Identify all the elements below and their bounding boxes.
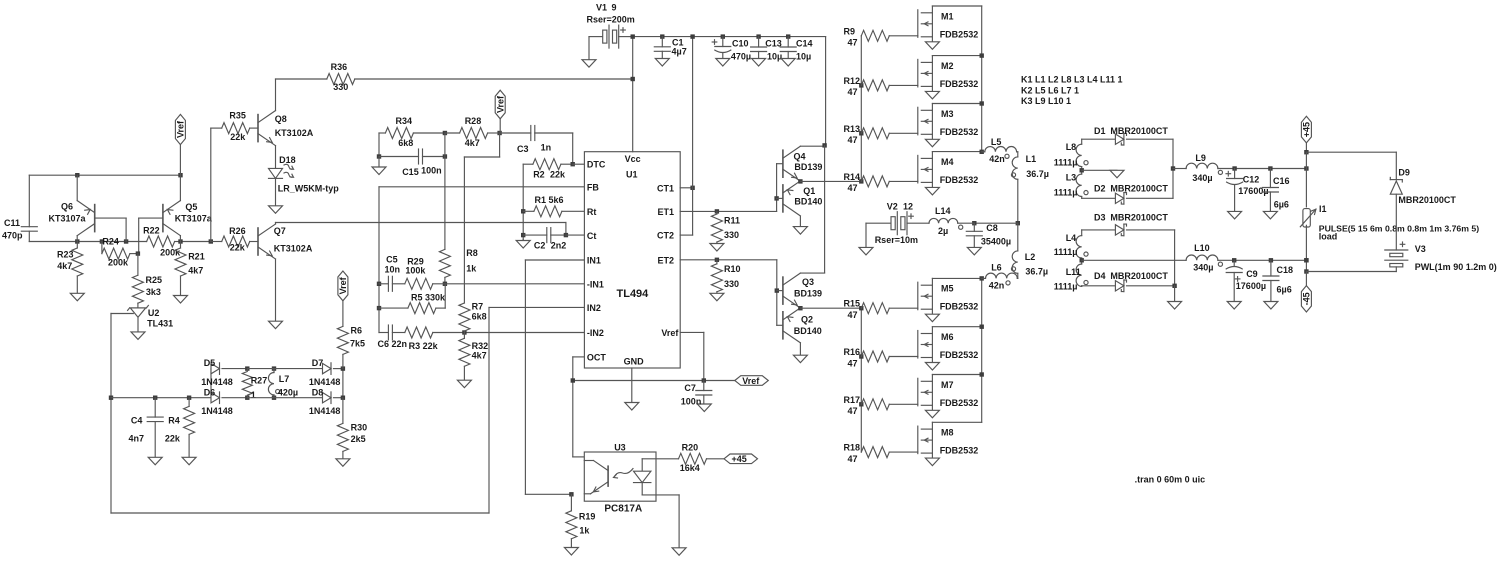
resistor R35	[211, 111, 258, 142]
net flag +45 R20	[724, 454, 758, 464]
resistor R32	[457, 333, 488, 388]
svg-text:22k: 22k	[165, 434, 181, 444]
svg-text:CT2: CT2	[657, 231, 674, 241]
svg-text:1111µ: 1111µ	[1054, 282, 1078, 292]
svg-text:C3: C3	[517, 144, 529, 154]
svg-text:R34: R34	[396, 116, 413, 126]
svg-text:47: 47	[848, 135, 858, 145]
svg-text:D3: D3	[1094, 213, 1106, 223]
wire drain M3	[932, 103, 981, 105]
wire gate bus bottom	[859, 306, 863, 452]
resistor R29	[392, 256, 584, 289]
resistor R28	[445, 116, 500, 148]
resistor R5	[379, 284, 446, 314]
junction dot R11	[715, 209, 719, 213]
svg-text:35400µ: 35400µ	[981, 236, 1011, 246]
svg-text:R7: R7	[472, 302, 484, 312]
wire to R8	[444, 133, 446, 249]
svg-text:Q1: Q1	[803, 186, 815, 196]
transistor Q4	[777, 146, 825, 181]
svg-text:TL431: TL431	[147, 318, 173, 328]
svg-text:R24: R24	[102, 236, 119, 246]
svg-text:340µ: 340µ	[1193, 262, 1213, 272]
svg-text:6µ6: 6µ6	[1277, 285, 1292, 295]
svg-text:MBR20100CT: MBR20100CT	[1398, 195, 1456, 205]
transistor Q6	[49, 175, 127, 241]
svg-text:FDB2532: FDB2532	[940, 175, 979, 185]
svg-text:1N4148: 1N4148	[201, 406, 233, 416]
svg-text:Vref: Vref	[176, 120, 186, 138]
svg-text:Q8: Q8	[275, 114, 287, 124]
inductor L9	[1173, 153, 1306, 183]
svg-text:Rt: Rt	[587, 207, 597, 217]
wire driver node A	[798, 179, 861, 183]
svg-text:LR_W5KM-typ: LR_W5KM-typ	[278, 184, 339, 194]
inductor L1	[1011, 152, 1049, 223]
svg-text:FDB2532: FDB2532	[940, 127, 979, 137]
wire D6 row	[247, 397, 322, 399]
svg-text:1: 1	[251, 390, 256, 400]
resistor R34	[379, 116, 445, 148]
resistor R22	[143, 225, 181, 257]
inductor L10	[1082, 243, 1307, 273]
svg-text:100k: 100k	[405, 266, 426, 276]
svg-text:L11: L11	[1066, 267, 1081, 277]
svg-text:TL494: TL494	[617, 288, 650, 300]
svg-text:L10: L10	[1194, 243, 1210, 253]
voltage source V3	[1306, 194, 1496, 272]
wire Q7 collector to Ct	[276, 223, 566, 236]
wire drain M7	[932, 374, 981, 376]
wire top rail	[633, 37, 826, 146]
svg-text:R12: R12	[844, 76, 861, 86]
wire drain M2	[932, 55, 981, 57]
svg-text:FB: FB	[587, 183, 599, 193]
ground V1	[582, 37, 596, 68]
svg-text:L2: L2	[1025, 252, 1036, 262]
svg-text:GND: GND	[624, 357, 645, 367]
capacitor C1	[654, 37, 686, 66]
diode D6	[201, 387, 247, 416]
junction dots DTC row	[443, 131, 502, 135]
junction dots top rail	[631, 34, 791, 38]
svg-text:.tran 0 60m 0 uic: .tran 0 60m 0 uic	[1135, 475, 1206, 485]
wire bus R35 R26	[210, 128, 212, 241]
mosfet M3 FDB2532	[918, 104, 978, 147]
capacitor C6	[378, 325, 408, 349]
svg-text:R26: R26	[229, 226, 246, 236]
resistor R4	[165, 398, 196, 465]
svg-text:6k8: 6k8	[398, 138, 413, 148]
svg-text:C18: C18	[1277, 265, 1294, 275]
junction dot R10	[715, 258, 719, 262]
net flag +45	[1301, 116, 1311, 152]
voltage source V1	[587, 3, 635, 49]
svg-text:47: 47	[848, 406, 858, 416]
capacitor C16	[1262, 169, 1289, 219]
svg-text:4k7: 4k7	[57, 261, 72, 271]
resistor R12	[844, 76, 918, 97]
svg-text:IN1: IN1	[587, 256, 601, 266]
svg-text:PULSE(5 15 6m 0.8m 0.8m 1m 3.7: PULSE(5 15 6m 0.8m 0.8m 1m 3.76m 5)	[1319, 223, 1479, 233]
junction dots +45 rail	[1232, 166, 1308, 170]
junction dots main wire	[75, 239, 213, 243]
svg-text:C5: C5	[386, 255, 398, 265]
svg-text:47: 47	[848, 87, 858, 97]
wire Q4 Q1 bases	[774, 164, 778, 212]
svg-text:C12: C12	[1243, 175, 1260, 185]
svg-text:MBR20100CT: MBR20100CT	[1110, 184, 1168, 194]
svg-text:47: 47	[848, 38, 858, 48]
svg-text:DTC: DTC	[587, 160, 606, 170]
svg-text:V3: V3	[1415, 244, 1426, 254]
svg-text:R10: R10	[724, 264, 741, 274]
resistor R10	[710, 260, 741, 301]
junction dots -45 rail	[1232, 258, 1309, 262]
wire FB	[379, 187, 584, 333]
resistor R6	[337, 301, 365, 369]
svg-text:1111µ: 1111µ	[1054, 158, 1078, 168]
winding L11	[1054, 258, 1088, 292]
resistor R18	[844, 443, 918, 464]
svg-text:C7: C7	[684, 383, 696, 393]
svg-text:1k: 1k	[466, 264, 477, 274]
svg-text:4k7: 4k7	[472, 351, 487, 361]
svg-text:420µ: 420µ	[278, 388, 298, 398]
svg-text:22k: 22k	[230, 243, 246, 253]
resistor R11	[710, 211, 740, 251]
svg-text:R35: R35	[229, 111, 246, 121]
svg-text:U1: U1	[626, 169, 638, 179]
svg-text:MBR20100CT: MBR20100CT	[1110, 271, 1168, 281]
svg-text:KT3102A: KT3102A	[274, 244, 313, 254]
svg-text:9: 9	[612, 3, 617, 13]
svg-text:V2: V2	[887, 202, 898, 212]
ground V2	[859, 223, 873, 255]
svg-text:D5: D5	[204, 358, 216, 368]
svg-text:10µ: 10µ	[767, 51, 782, 61]
svg-text:R19: R19	[579, 511, 596, 521]
wire drain bus top	[980, 6, 984, 154]
transistor Q8	[258, 79, 314, 168]
svg-text:Q2: Q2	[801, 315, 813, 325]
svg-text:R23: R23	[57, 249, 74, 259]
svg-text:D9: D9	[1398, 168, 1410, 178]
svg-text:Q4: Q4	[794, 151, 806, 161]
net flag Vref	[735, 376, 769, 386]
svg-text:R5 330k: R5 330k	[411, 292, 446, 302]
wire rectifier bottom to ground	[1168, 230, 1182, 309]
svg-text:L3: L3	[1066, 172, 1077, 182]
resistor R13	[844, 124, 918, 145]
capacitor C10	[712, 37, 751, 66]
wire to bus	[181, 241, 211, 243]
wire ET1	[680, 210, 776, 212]
svg-text:330: 330	[724, 230, 739, 240]
svg-text:1111µ: 1111µ	[1054, 187, 1078, 197]
svg-text:R15: R15	[844, 299, 861, 309]
svg-text:Q5: Q5	[185, 202, 197, 212]
svg-text:M8: M8	[941, 428, 954, 438]
wire Vref node	[571, 378, 735, 382]
svg-text:C16: C16	[1273, 176, 1290, 186]
current load I1	[1300, 204, 1326, 227]
svg-text:Q7: Q7	[274, 226, 286, 236]
wire DTC stub	[571, 162, 585, 166]
svg-text:C2: C2	[534, 241, 546, 251]
capacitor C13	[751, 37, 783, 66]
resistor R19	[564, 494, 595, 555]
svg-text:FDB2532: FDB2532	[940, 302, 979, 312]
mosfet M4 FDB2532	[918, 152, 978, 195]
diode D4	[1082, 271, 1175, 292]
wire drain M8	[932, 421, 981, 423]
svg-text:L4: L4	[1066, 233, 1077, 243]
svg-text:200k: 200k	[108, 257, 129, 267]
svg-text:3k3: 3k3	[146, 287, 161, 297]
svg-text:M7: M7	[941, 380, 954, 390]
inductor L5	[982, 137, 1018, 164]
svg-text:C8: C8	[986, 223, 998, 233]
transistor Q7	[258, 223, 313, 329]
resistor R26	[211, 226, 258, 253]
svg-text:Vcc: Vcc	[625, 154, 641, 164]
resistor R8	[439, 248, 477, 284]
svg-text:FDB2532: FDB2532	[940, 398, 979, 408]
junction node D-network left	[109, 396, 113, 400]
shunt regulator U2 TL431	[111, 303, 173, 339]
wire gate bus top	[859, 36, 863, 184]
svg-text:M5: M5	[941, 284, 954, 294]
svg-text:1N4148: 1N4148	[309, 377, 341, 387]
svg-text:Vref: Vref	[338, 276, 348, 294]
svg-text:Vref: Vref	[742, 376, 760, 386]
transistor Q1	[777, 181, 823, 234]
svg-text:R1 5k6: R1 5k6	[535, 195, 564, 205]
svg-text:2n2: 2n2	[551, 241, 567, 251]
svg-text:load: load	[1319, 232, 1338, 242]
wire drain M6	[932, 326, 981, 328]
resistor R30	[336, 398, 367, 467]
svg-text:10n: 10n	[385, 264, 401, 274]
resistor R25	[132, 254, 162, 304]
svg-text:M2: M2	[941, 61, 954, 71]
svg-text:10µ: 10µ	[796, 51, 811, 61]
svg-text:M4: M4	[941, 157, 954, 167]
svg-text:L14: L14	[935, 206, 951, 216]
mosfet M5 FDB2532	[918, 278, 978, 321]
svg-text:C10: C10	[732, 39, 749, 49]
svg-text:OCT: OCT	[587, 353, 607, 363]
wire feedback loop bottom	[111, 307, 489, 513]
svg-text:22k: 22k	[230, 132, 246, 142]
svg-text:7k5: 7k5	[350, 338, 365, 348]
net flag Vref tail	[175, 114, 185, 175]
wire D5 row	[247, 368, 322, 370]
svg-text:100n: 100n	[681, 396, 702, 406]
inductor L2	[1011, 223, 1048, 278]
wire Vcc bus right	[822, 143, 826, 273]
svg-text:D7: D7	[312, 358, 324, 368]
optocoupler U3 PC817A box	[584, 443, 656, 515]
junction dots R1 C2	[521, 209, 525, 237]
net flag Vref DTC	[495, 90, 505, 133]
svg-text:R36: R36	[331, 62, 348, 72]
wire ET2	[680, 259, 777, 261]
wire IN1 to opto	[525, 260, 584, 494]
resistor R1	[523, 195, 584, 217]
svg-text:L1: L1	[1026, 154, 1037, 164]
svg-text:BD140: BD140	[794, 326, 822, 336]
svg-text:ET1: ET1	[657, 207, 674, 217]
svg-text:K2 L5 L6 L7 1: K2 L5 L6 L7 1	[1021, 86, 1079, 96]
svg-text:1111µ: 1111µ	[1054, 247, 1078, 257]
svg-text:M1: M1	[941, 11, 954, 21]
wire emitter rail	[29, 174, 180, 176]
svg-text:2µ: 2µ	[938, 226, 948, 236]
svg-text:R3 22k: R3 22k	[409, 341, 439, 351]
svg-text:FDB2532: FDB2532	[940, 350, 979, 360]
svg-text:D18: D18	[279, 155, 296, 165]
mosfet M1 FDB2532	[918, 6, 978, 49]
svg-text:Ct: Ct	[587, 231, 597, 241]
svg-text:C13: C13	[765, 39, 782, 49]
svg-text:PWL(1m 90 1.2m 0): PWL(1m 90 1.2m 0)	[1415, 262, 1497, 272]
svg-text:470p: 470p	[2, 231, 23, 241]
resistor R2	[523, 159, 573, 180]
wire drain bus bottom	[980, 276, 984, 422]
svg-text:-45: -45	[1302, 292, 1312, 305]
inductor L7	[268, 369, 298, 398]
wire OCT to opto collector	[573, 357, 585, 457]
svg-text:C14: C14	[796, 39, 813, 49]
resistor R21	[174, 242, 205, 304]
winding L4	[1054, 230, 1088, 258]
svg-text:C9: C9	[1246, 269, 1258, 279]
text simulation directive	[1135, 475, 1206, 485]
svg-text:36.7µ: 36.7µ	[1026, 169, 1049, 179]
svg-text:1N4148: 1N4148	[309, 406, 341, 416]
svg-text:R30: R30	[351, 423, 368, 433]
svg-text:-IN1: -IN1	[587, 280, 604, 290]
capacitor C3	[500, 126, 573, 155]
svg-text:R28: R28	[465, 116, 482, 126]
capacitor C7	[681, 381, 712, 412]
resistor R27	[242, 369, 267, 400]
capacitor C9	[1226, 260, 1266, 309]
svg-text:4k7: 4k7	[188, 266, 203, 276]
resistor R16	[844, 347, 918, 368]
resistor R14	[844, 172, 918, 193]
ground GND pin	[625, 368, 639, 410]
svg-text:IN2: IN2	[587, 303, 601, 313]
resistor R23	[57, 242, 84, 301]
svg-text:1k: 1k	[579, 525, 590, 535]
net flag -45	[1301, 272, 1311, 313]
resistor R20	[642, 443, 724, 474]
wire Vref pin	[680, 332, 704, 380]
svg-text:Rser=200m: Rser=200m	[587, 15, 635, 25]
junction dots -IN1 R5	[377, 282, 447, 311]
winding L8	[1054, 139, 1088, 167]
transistor Q5	[139, 175, 213, 253]
wire rectifier top	[1171, 139, 1175, 198]
junction dots C4 R4	[153, 396, 191, 400]
junction dots emitter rail	[75, 173, 183, 177]
mosfet M7 FDB2532	[918, 375, 978, 418]
svg-text:K1 L1 L2 L8 L3 L4 L11 1: K1 L1 L2 L8 L3 L4 L11 1	[1021, 75, 1123, 85]
svg-text:C15: C15	[402, 167, 419, 177]
wire driver node B	[798, 306, 861, 310]
junction dot -IN2	[462, 330, 466, 334]
svg-text:FDB2532: FDB2532	[940, 446, 979, 456]
net flag Vref R6	[338, 271, 348, 301]
svg-text:M6: M6	[941, 332, 954, 342]
svg-text:C11: C11	[4, 218, 20, 228]
wire main left	[29, 241, 146, 243]
wire +45 bus upper	[1304, 150, 1308, 207]
svg-text:R6: R6	[351, 325, 363, 335]
wire resonant node	[972, 221, 1020, 225]
resistor R36 and wire to Vcc	[276, 62, 633, 92]
svg-text:1N4148: 1N4148	[201, 377, 233, 387]
svg-text:22k: 22k	[550, 170, 566, 180]
svg-text:FDB2532: FDB2532	[940, 29, 979, 39]
junction dots R27 L7	[245, 366, 276, 400]
transistor Q3	[777, 273, 825, 308]
svg-text:R2: R2	[533, 170, 545, 180]
wire CT1 CT2 to Vcc rail	[680, 37, 695, 236]
svg-text:L7: L7	[279, 374, 290, 384]
svg-text:R13: R13	[844, 124, 861, 134]
node R24 R25	[136, 251, 140, 255]
svg-text:KT3107a: KT3107a	[175, 214, 213, 224]
resistor R3	[392, 327, 464, 351]
text I1 value	[1319, 223, 1479, 241]
IC U1 TL494	[584, 152, 680, 368]
capacitor C4	[129, 398, 164, 465]
svg-text:CT1: CT1	[657, 183, 674, 193]
svg-text:R20: R20	[682, 443, 699, 453]
capacitor C15	[379, 149, 447, 177]
junction dot R19	[569, 492, 573, 496]
svg-text:Vref: Vref	[495, 95, 505, 113]
diode D9	[1390, 168, 1456, 205]
diode D3	[1082, 213, 1175, 236]
wire Q3 Q2 bases	[775, 260, 779, 326]
capacitor C8	[966, 223, 1011, 255]
svg-text:L8: L8	[1066, 142, 1077, 152]
opto phototransistor	[584, 461, 608, 494]
mosfet M2 FDB2532	[918, 56, 978, 99]
svg-text:+45: +45	[732, 454, 747, 464]
wire -IN2	[464, 332, 584, 334]
diode D8	[309, 387, 343, 416]
ground center tap top	[1082, 170, 1124, 178]
ground R34 C15	[372, 154, 386, 174]
svg-text:6k8: 6k8	[472, 312, 487, 322]
svg-text:K3 L9 L10 1: K3 L9 L10 1	[1021, 96, 1071, 106]
svg-text:MBR20100CT: MBR20100CT	[1110, 126, 1168, 136]
svg-text:R4: R4	[168, 416, 180, 426]
svg-text:BD139: BD139	[794, 162, 822, 172]
wire IN2 stub	[489, 306, 584, 308]
mosfet M6 FDB2532	[918, 327, 978, 370]
svg-text:16k4: 16k4	[680, 463, 700, 473]
wire C3 to DTC	[572, 133, 574, 164]
svg-text:R14: R14	[844, 172, 861, 182]
svg-text:FDB2532: FDB2532	[940, 79, 979, 89]
